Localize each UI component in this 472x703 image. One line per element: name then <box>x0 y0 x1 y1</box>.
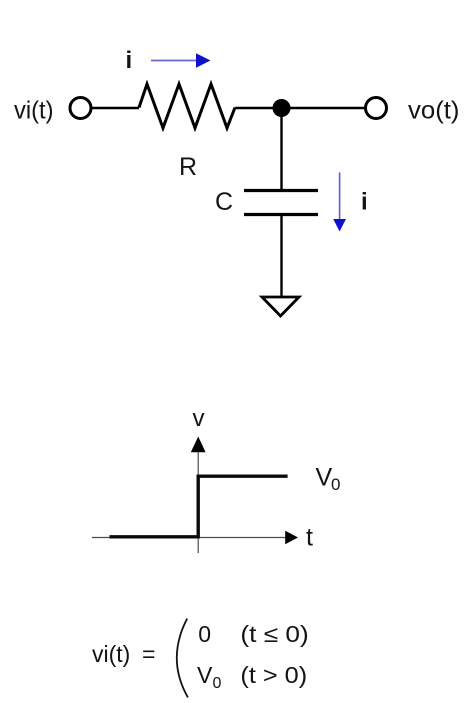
svg-text:0: 0 <box>198 621 211 647</box>
svg-text:v: v <box>193 405 205 432</box>
svg-text:0: 0 <box>213 675 222 692</box>
svg-text:vo(t): vo(t) <box>408 97 460 125</box>
svg-text:R: R <box>179 153 197 181</box>
svg-text:vi(t): vi(t) <box>92 641 130 667</box>
svg-text:V: V <box>197 662 213 688</box>
svg-text:(t ≤ 0): (t ≤ 0) <box>240 621 308 647</box>
svg-text:i: i <box>126 47 133 74</box>
svg-text:vi(t): vi(t) <box>14 97 54 125</box>
svg-text:t: t <box>306 524 313 552</box>
svg-text:i: i <box>361 189 368 216</box>
svg-text:V: V <box>316 464 333 492</box>
svg-text:(t > 0): (t > 0) <box>240 662 307 688</box>
svg-text:0: 0 <box>331 475 340 494</box>
svg-text:C: C <box>215 188 233 216</box>
svg-text:=: = <box>142 641 155 667</box>
